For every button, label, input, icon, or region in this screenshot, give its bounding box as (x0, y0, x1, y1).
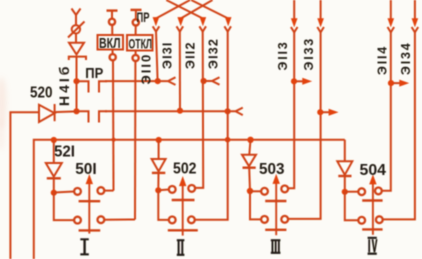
numeral III (271, 239, 281, 254)
wire (75, 34, 77, 44)
relay3 contact row1 (250, 190, 261, 192)
relay4 contact row2 (345, 192, 359, 221)
svg-text:50I: 50I (75, 161, 97, 178)
node bus-VKL (112, 138, 116, 142)
svg-text:ЭI33: ЭI33 (302, 37, 316, 70)
node J1 (73, 78, 79, 84)
wire OTKL to relay1 contact (104, 219, 135, 221)
fuse holder PR contact pair row1 (77, 81, 89, 92)
svg-text:ПР: ПР (137, 9, 150, 25)
svg-text:502: 502 (173, 160, 197, 177)
wire W1 (E131) (156, 31, 158, 81)
node relay3 (247, 188, 253, 194)
diode VD1 (column x=76) (69, 43, 84, 55)
svg-text:Н4Iб: Н4Iб (56, 64, 72, 106)
svg-text:ПР: ПР (85, 65, 103, 82)
node with fork arrow on wire1 right segment (201, 78, 207, 84)
svg-text:503: 503 (259, 161, 285, 178)
numeral II (177, 239, 185, 256)
node with fork arrow on wire2 (225, 108, 231, 114)
relay2 contact row1 (158, 189, 169, 192)
wire vertical J1-J2 (76, 81, 78, 111)
node bus-W4 (225, 137, 231, 143)
svg-text:520: 520 (30, 85, 53, 102)
node bus-502 (156, 137, 162, 143)
node relay4 (342, 189, 348, 195)
button VKL SB1 (107, 9, 118, 11)
svg-text:ЭI32: ЭI32 (207, 38, 221, 69)
svg-text:ЭII4: ЭII4 (376, 45, 390, 75)
svg-text:ВКЛ: ВКЛ (99, 36, 121, 52)
bus wire (34, 140, 345, 259)
node relay1 (51, 190, 57, 196)
node relay2 (155, 187, 161, 193)
button OTKL SB2 (131, 9, 142, 11)
diode 520 (10, 112, 39, 259)
arrester F1 top fork terminal (72, 9, 81, 16)
crossing diagonals top (156, 0, 190, 19)
relay2 armature (182, 185, 184, 236)
relay1 contact row2 (54, 193, 74, 220)
fuse indicator circle with slash (72, 25, 80, 33)
svg-text:ЭII3: ЭII3 (276, 41, 290, 71)
wire W5 (E113) (288, 0, 294, 188)
node+arrow on W7 (388, 80, 394, 86)
relay3 armature (275, 183, 277, 235)
relay2 contact row2 (158, 190, 169, 220)
fuse holder PR contact pair row2 (77, 111, 89, 122)
node bus-503 (247, 137, 253, 143)
wire W2 (E112) (179, 31, 181, 111)
wire W6 (E133) (288, 0, 320, 219)
relay1 contact row1 (54, 192, 74, 193)
wire W4 (195, 31, 228, 220)
wire W-row1 to node (105, 80, 158, 82)
wire W7 (E114) (382, 0, 391, 191)
arrowheads down W1-W4 (153, 18, 231, 25)
relay4 armature (372, 183, 374, 235)
svg-text:ЭII0: ЭII0 (139, 53, 154, 85)
numeral IV (368, 237, 378, 255)
diode relay2 (158, 140, 160, 159)
svg-text:ЭI34: ЭI34 (399, 42, 413, 75)
wire W3 (E132) (195, 31, 203, 188)
wire (75, 14, 77, 25)
forks at W1-W4 tops (153, 26, 231, 31)
numeral I (80, 238, 89, 255)
wire VKL to relay1 contact (104, 190, 113, 192)
svg-text:504: 504 (360, 162, 387, 179)
node W2 end (177, 108, 183, 114)
node J2 (73, 108, 79, 114)
relay3 contact row2 (250, 191, 261, 219)
wire W8 (E134) (383, 0, 415, 219)
relay1 armature (88, 183, 90, 234)
svg-text:ЭII2: ЭII2 (184, 41, 198, 69)
node+arrow on W6 (317, 109, 323, 115)
node+arrow on W5 (291, 78, 297, 84)
diode relay4 (344, 140, 346, 162)
diode 521 (53, 140, 55, 163)
node bus-501 (51, 137, 57, 143)
node with fork arrow (155, 78, 161, 84)
svg-text:ОТКЛ: ОТКЛ (129, 36, 153, 52)
wire (76, 57, 78, 82)
svg-text:ЭI3I: ЭI3I (161, 41, 175, 69)
diode relay3 (249, 140, 250, 155)
paper smudge left edge (0, 77, 7, 151)
relay4 contact row1 (345, 191, 359, 193)
wire W-row2 (105, 110, 228, 112)
svg-text:52I: 52I (54, 144, 75, 161)
